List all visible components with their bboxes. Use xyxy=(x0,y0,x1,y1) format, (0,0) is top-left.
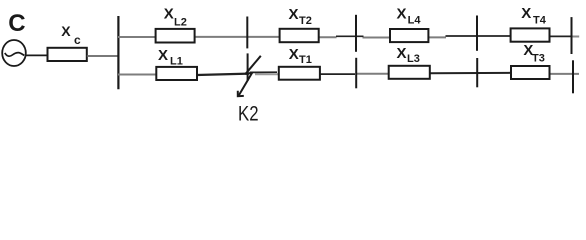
svg-text:K2: K2 xyxy=(238,103,259,126)
svg-text:T2: T2 xyxy=(299,15,312,27)
svg-text:X: X xyxy=(61,23,71,39)
svg-text:X: X xyxy=(164,6,174,23)
svg-text:X: X xyxy=(158,47,168,64)
svg-text:X: X xyxy=(397,5,407,22)
svg-text:X: X xyxy=(397,45,407,62)
svg-text:C: C xyxy=(8,10,25,37)
svg-text:X: X xyxy=(521,5,531,22)
svg-text:L2: L2 xyxy=(174,17,187,29)
svg-text:X: X xyxy=(289,6,299,23)
svg-text:T1: T1 xyxy=(299,54,312,66)
svg-text:L1: L1 xyxy=(170,55,183,67)
svg-text:T4: T4 xyxy=(533,14,547,26)
svg-text:L3: L3 xyxy=(407,53,420,65)
svg-text:T3: T3 xyxy=(532,53,545,65)
svg-text:c: c xyxy=(74,33,81,47)
svg-text:L4: L4 xyxy=(408,15,422,27)
svg-text:X: X xyxy=(289,46,299,63)
